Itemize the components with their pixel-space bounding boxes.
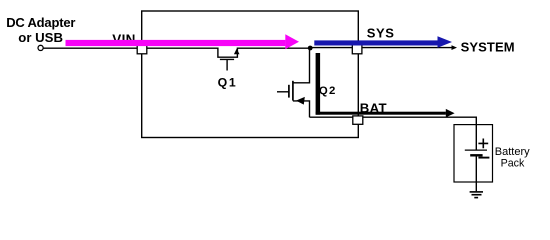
svg-text:or USB: or USB	[18, 30, 63, 45]
svg-text:SYSTEM: SYSTEM	[461, 39, 515, 54]
svg-text:Pack: Pack	[501, 158, 525, 170]
svg-text:DC Adapter: DC Adapter	[6, 15, 75, 30]
svg-text:SYS: SYS	[367, 26, 395, 41]
svg-text:Q2: Q2	[319, 85, 337, 97]
svg-text:Battery: Battery	[495, 146, 530, 158]
svg-text:Q1: Q1	[218, 76, 238, 90]
